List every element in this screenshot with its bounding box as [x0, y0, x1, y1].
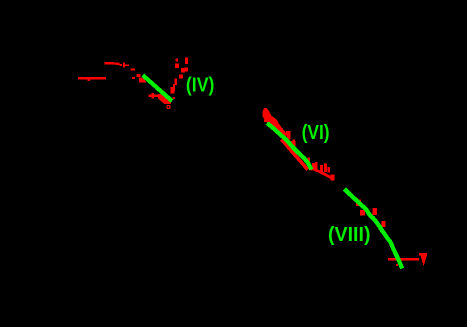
VIII dot b: [360, 210, 365, 216]
open circle marker: [167, 105, 170, 108]
last point x-error bar: [388, 258, 419, 261]
small red nub right of IV tip: [173, 97, 176, 99]
VI tail end blob: [331, 174, 335, 180]
VIII dot c: [372, 208, 377, 215]
svg-text:(VIII): (VIII): [328, 224, 371, 246]
series dash: [120, 64, 122, 66]
scattered points right of IV: [176, 59, 179, 62]
VI spike b: [308, 158, 311, 164]
series dash low: [132, 77, 135, 79]
plus marker with x-error bar: [149, 95, 161, 98]
upper limit arrow taper: [421, 256, 427, 266]
VI gap blob: [293, 140, 296, 142]
VI red right-hug upper: [287, 135, 291, 139]
tiny red nub left of VIII tip: [396, 264, 398, 266]
series dot: [136, 74, 140, 77]
VI right blob at tip: [311, 166, 316, 171]
green fit segment VI: [267, 123, 312, 170]
svg-text:(IV): (IV): [186, 75, 215, 97]
VI spike d: [315, 162, 318, 170]
VI spike g: [328, 167, 331, 173]
data point 1 marker tick: [88, 79, 91, 81]
VI red band lower-left hug: [281, 140, 308, 170]
svg-text:(VI): (VI): [302, 122, 330, 144]
green fit segment VIII: [345, 189, 403, 269]
VI spike c: [312, 163, 315, 170]
VI red right-hug: [291, 141, 296, 147]
series dash: [127, 64, 130, 66]
VI red diagonal tail: [313, 169, 334, 179]
VI bump right of green: [286, 131, 291, 135]
data point 1 x-error bar: [78, 77, 106, 80]
data series top line: [105, 62, 120, 65]
VI spike e: [320, 165, 323, 172]
VIII dot d: [381, 221, 385, 227]
VI spike f: [324, 164, 327, 172]
VIII dot a: [356, 200, 361, 207]
upper limit T-top: [419, 253, 427, 256]
red blob cluster at green IV end: [158, 94, 171, 104]
VI cluster leading wedge: [263, 108, 287, 140]
VI wedge patch over green cap: [264, 120, 269, 122]
green fit segment IV: [143, 75, 172, 101]
red blob under green IV start: [139, 77, 146, 82]
series dash with plus tick: [123, 64, 127, 66]
series dot: [130, 68, 135, 70]
